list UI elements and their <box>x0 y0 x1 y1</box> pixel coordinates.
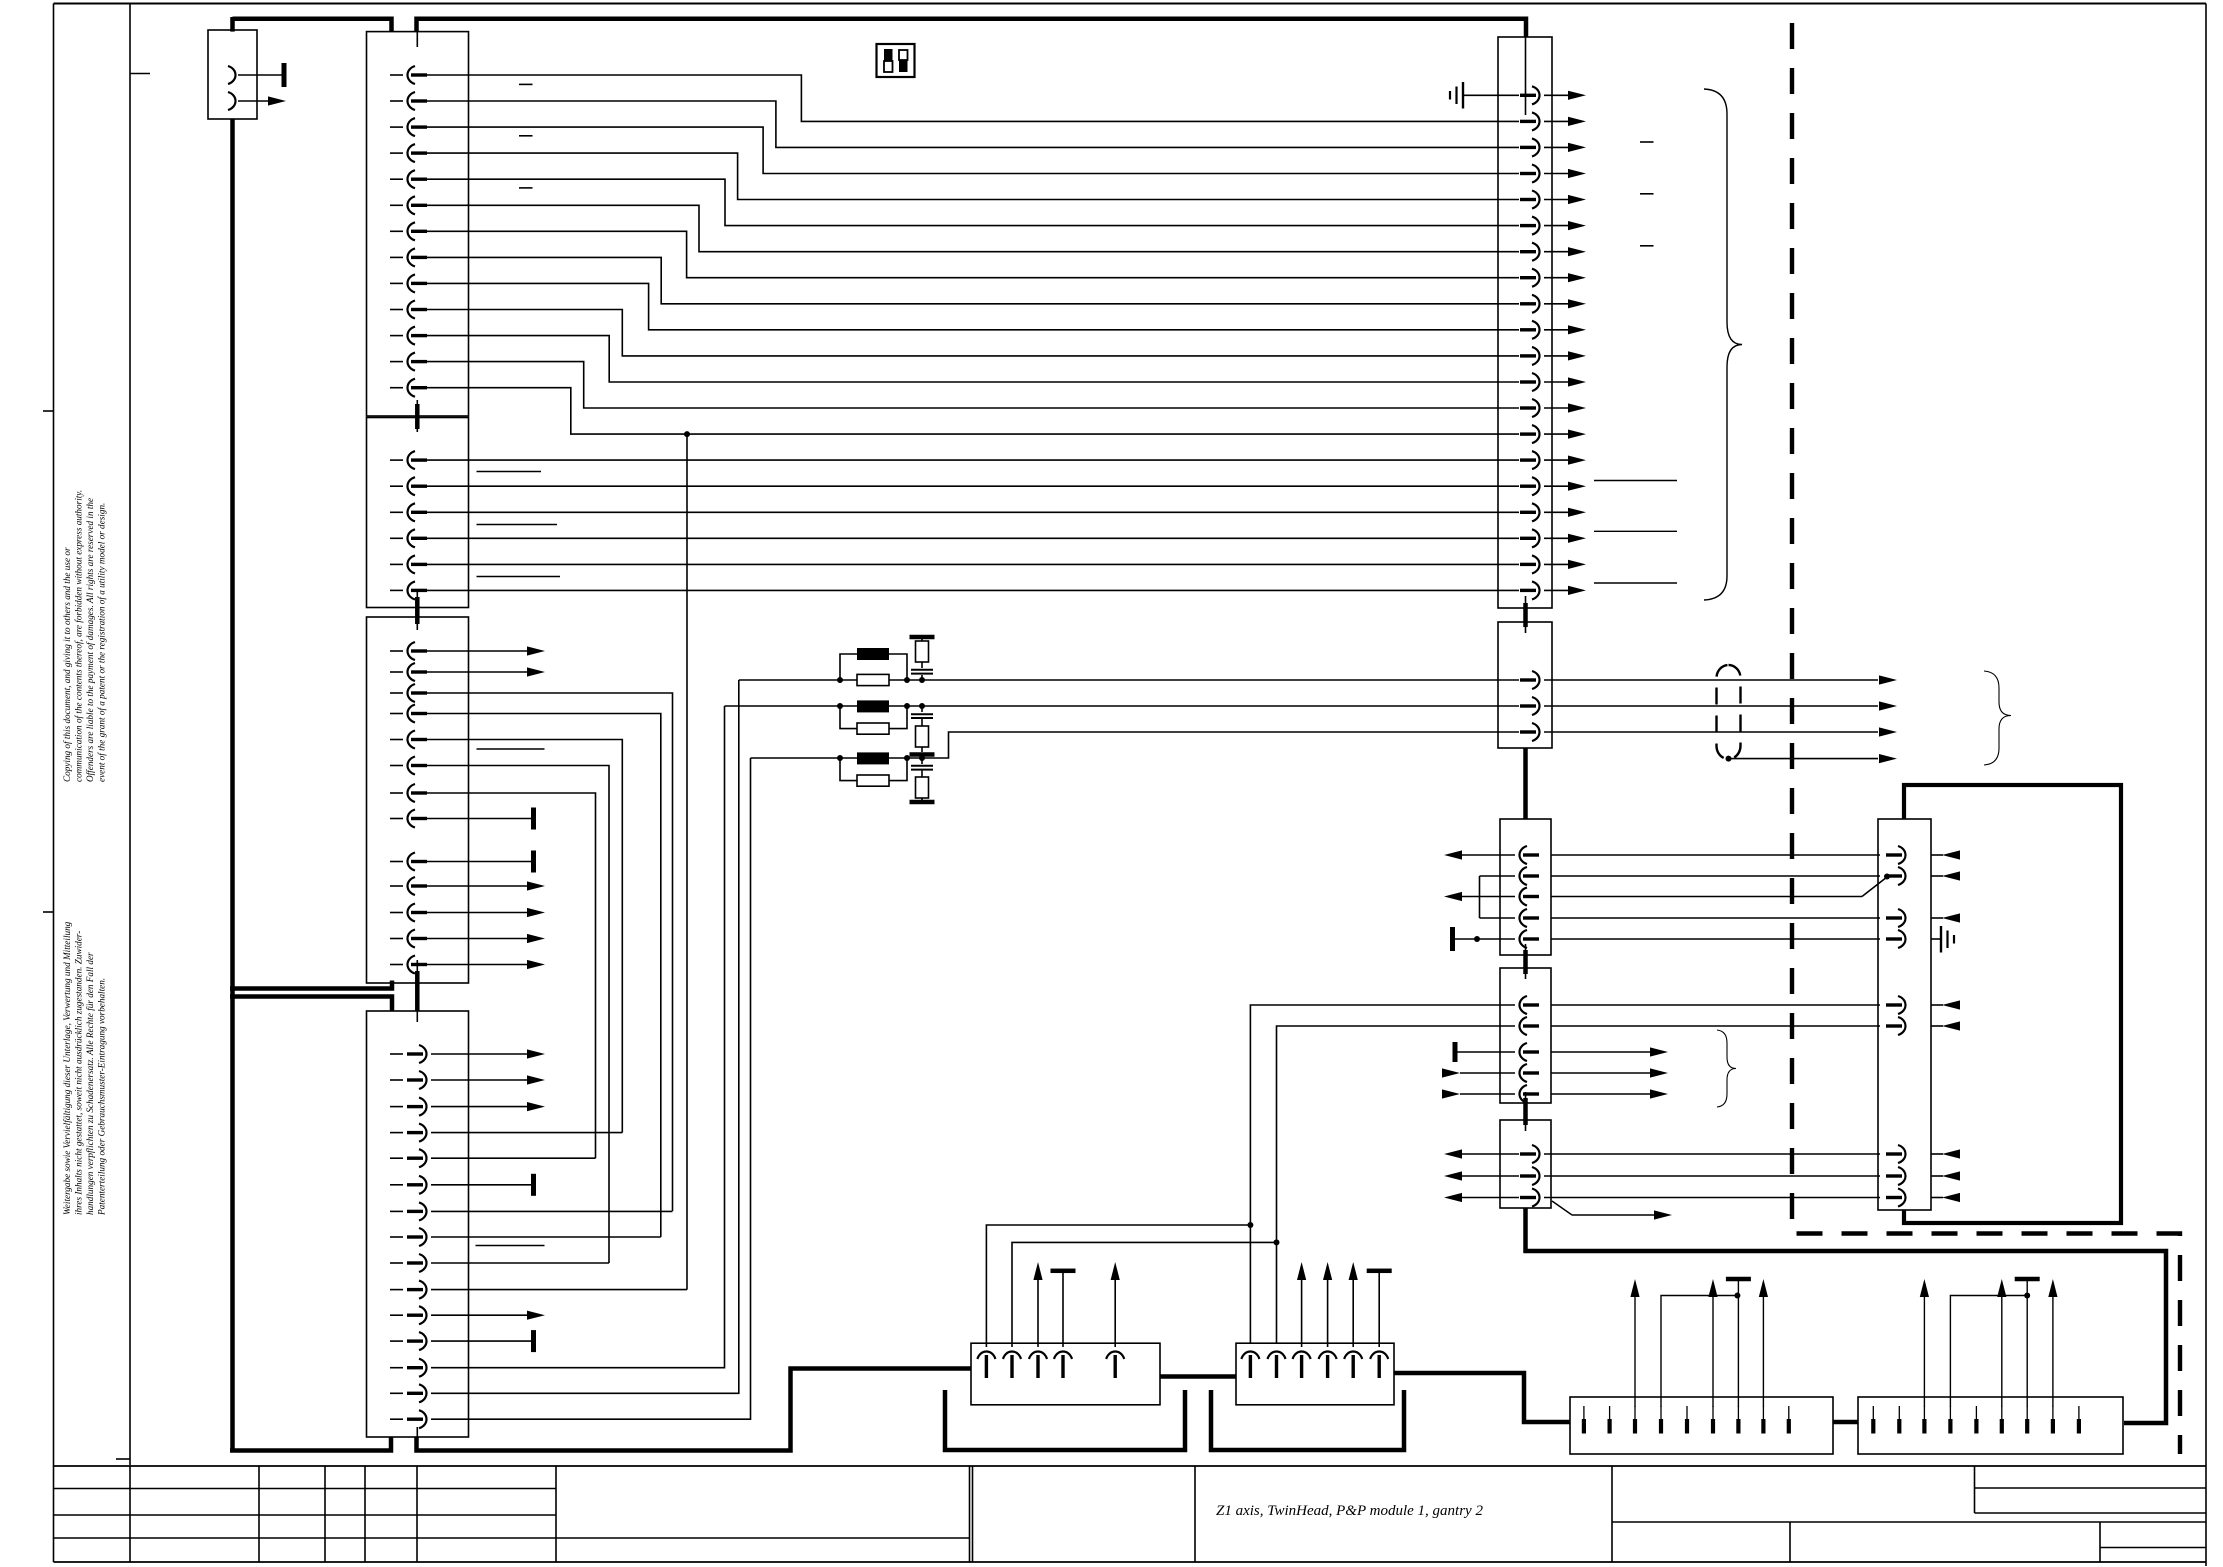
thick link X11 to X12 <box>1523 748 1528 819</box>
connector X10 pin 12 <box>1532 373 1540 391</box>
connector X2 pin 5 <box>390 563 403 565</box>
resistor pair loop row706 <box>840 706 857 729</box>
connector X13 pin 2 <box>1520 1017 1528 1035</box>
XA pin4 terminal up <box>1062 1273 1064 1347</box>
thick bottom bus y1450 left <box>230 1437 391 1451</box>
X15 arrow row1026 <box>1942 1021 1960 1030</box>
connector XC pin 5 <box>1685 1419 1689 1434</box>
connector X1 pin 1 <box>390 74 403 76</box>
X10 pin 8 output wire+arrow <box>1544 277 1568 279</box>
thick bottom bus y1450 mid <box>417 1369 972 1451</box>
label dash c3 <box>1640 245 1654 247</box>
connector XA pin 1 <box>977 1352 995 1360</box>
X11 pin 1 arrow <box>1879 675 1897 684</box>
X12 pin5 terminal <box>1450 927 1455 951</box>
connector X10 pin 7 <box>1532 243 1540 261</box>
connector X12 pin 1 <box>1520 846 1528 864</box>
connector X12 box <box>1500 819 1551 955</box>
X10 pin 20 output wire+arrow <box>1544 589 1568 591</box>
terminal bar X4 pin12 <box>531 1330 536 1352</box>
junction dots row 758 <box>837 755 843 761</box>
XB pin3 arrow up <box>1301 1280 1303 1347</box>
X10 pin 5 output wire+arrow <box>1544 199 1568 201</box>
DIP switch S1 element 1 <box>884 49 893 61</box>
connector X4 pin 13 <box>390 1367 403 1369</box>
resistor R1 <box>857 674 889 685</box>
X0 pin1 wire to terminal <box>238 74 282 76</box>
connector X2 box <box>367 418 469 608</box>
XB pin4 arrow up <box>1327 1280 1329 1347</box>
label underline b5 <box>476 1245 545 1247</box>
connector X10 pin 11 <box>1532 347 1540 365</box>
title block grid <box>54 1465 2207 1467</box>
X4 pin2 wire+arrow <box>431 1079 527 1081</box>
X11 pin 1 wire out <box>1544 679 1878 681</box>
X11 pin 2 wire out <box>1544 705 1878 707</box>
connector X10 pin 15 <box>1532 451 1540 469</box>
X10 pin 18 output wire+arrow <box>1544 537 1568 539</box>
label dash a2 <box>519 135 533 137</box>
wire X12 pin2 to X15 <box>1551 875 1880 877</box>
connector X11 pin 1 <box>1532 671 1540 689</box>
wire X4 pin5 up <box>431 1157 596 1159</box>
brace group cable <box>1984 671 2011 765</box>
wire X1 pin 1 to X10 <box>427 75 1519 121</box>
connector X12 pin 5 <box>1520 930 1528 948</box>
connector X4 pin 10 <box>390 1289 403 1291</box>
connector X10 pin 6 <box>1532 217 1540 235</box>
label dash a3 <box>519 187 533 189</box>
connector XB pin 2 <box>1268 1352 1286 1360</box>
connector X3 pin 11 <box>390 912 403 914</box>
connector X1 pin 5 <box>390 178 403 180</box>
label dash c1 <box>1640 141 1654 143</box>
connector XA pin 5 <box>1106 1352 1124 1360</box>
resistor pair loop row680 <box>840 654 857 680</box>
connector XD pin 6 <box>2000 1419 2004 1434</box>
connector XB pin 4 <box>1319 1352 1337 1360</box>
X14 pin 2 left arrow <box>1444 1171 1462 1180</box>
X13 pin4 in-arrow <box>1442 1068 1460 1077</box>
X3 pin12 wire+arrow <box>427 938 527 940</box>
wire X4 pin15 up <box>431 758 751 1419</box>
connector X13 box <box>1500 968 1551 1103</box>
connector XC pin 3 <box>1633 1419 1637 1434</box>
thick top bus segment B1 <box>233 19 392 32</box>
link X1-X2 <box>416 400 418 432</box>
X3 pin8 wire to terminal <box>427 818 531 820</box>
cable shield capsule <box>1717 665 1741 759</box>
connector XD box <box>1858 1397 2123 1454</box>
label dash c2 <box>1640 193 1654 195</box>
connector X3 pin 7 <box>390 792 403 794</box>
dashed boundary line <box>1792 23 2180 1454</box>
connector X3 pin 1 <box>390 650 403 652</box>
connector X14 pin 3 <box>1532 1189 1540 1207</box>
connector X3 pin 12 <box>390 938 403 940</box>
X13 pin5 in-arrow <box>1442 1089 1460 1098</box>
wire X4 pin8 <box>431 1236 661 1238</box>
connector XB box <box>1236 1343 1394 1405</box>
XC pin3 arrow up <box>1634 1297 1636 1407</box>
link X10-X11 <box>1525 596 1527 633</box>
wire X14 pin 2 to X15 <box>1544 1175 1880 1177</box>
thick earth bus vertical x232 upper <box>230 17 235 32</box>
junction dots row 680 <box>837 677 843 683</box>
X13 pin3 terminal <box>1453 1042 1458 1062</box>
connector XB pin 6 <box>1370 1352 1388 1360</box>
connector X1 pin 8 <box>390 256 403 258</box>
wire X1 pin 7 to X10 <box>427 231 1519 277</box>
connector XC pin 8 <box>1761 1419 1765 1434</box>
connector XD pin 7 <box>2025 1419 2029 1434</box>
connector X4 box <box>367 1011 469 1437</box>
connector X3 box <box>367 617 469 983</box>
XA pin5 arrow up <box>1114 1280 1116 1347</box>
connector X10 pin 8 <box>1532 269 1540 287</box>
connector X10 pin 9 <box>1532 295 1540 313</box>
wire X4 pin4 up <box>431 1132 622 1134</box>
wire X3 pin7 down <box>427 793 596 1158</box>
wire X1 pin 11 to X10 <box>427 336 1519 382</box>
connector X4 pin 12 <box>390 1340 403 1342</box>
wire vertical x687 down to X4 <box>686 434 688 1290</box>
label underline b4 <box>477 748 545 750</box>
connector X11 pin 3 <box>1532 723 1540 741</box>
connector X0 pin 1 <box>228 66 236 84</box>
wire X3 pin3 down <box>427 693 673 1211</box>
connector X10 pin 4 <box>1532 165 1540 183</box>
X15 arrow row1197.5 <box>1942 1193 1960 1202</box>
X10 pin 11 output wire+arrow <box>1544 355 1568 357</box>
connector X12 pin 3 <box>1520 888 1528 906</box>
X3 pin10 wire+arrow <box>427 885 527 887</box>
connector XA pin 4 <box>1054 1352 1072 1360</box>
connector X15 pin row1005 <box>1898 996 1906 1014</box>
connector X4 pin 3 <box>390 1106 403 1108</box>
diagonal tie row896-row876 <box>1862 877 1887 897</box>
connector XC pin 6 <box>1711 1419 1715 1434</box>
wire X2 pin 1 to X10 <box>427 459 1519 461</box>
connector XB pin 5 <box>1344 1352 1362 1360</box>
X14 shield diagonal <box>1552 1201 1572 1215</box>
X10 pin 3 output wire+arrow <box>1544 146 1568 148</box>
sheet frame border <box>54 3 2207 5</box>
connector X1 pin 9 <box>390 282 403 284</box>
X12 pin3 left arrow <box>1444 892 1462 901</box>
module M1 box (thick) <box>1904 785 2121 1223</box>
connector X4 pin 2 <box>390 1079 403 1081</box>
terminal bar at X0 pin1 <box>282 63 287 87</box>
resistor R2 <box>857 723 889 734</box>
junction dot x1276 <box>1274 1239 1280 1245</box>
wire X4 pin14 up <box>431 680 739 1393</box>
terminal bar X4 pin6 <box>531 1174 536 1196</box>
X3 pin13 wire+arrow <box>427 964 527 966</box>
cap chain row758: resistor R6 <box>916 777 929 798</box>
connector X1 pin 2 <box>390 100 403 102</box>
X10 pin 2 output wire+arrow <box>1544 120 1568 122</box>
X15 arrow row918 <box>1942 913 1960 922</box>
svg-text:Copying of this document, and: Copying of this document, and giving it … <box>62 547 72 782</box>
connector strip X15 box <box>1878 819 1931 1210</box>
X15 arrow row876 <box>1942 871 1960 880</box>
DIP switch S1 element 2 <box>899 50 908 60</box>
connector X10 pin 16 <box>1532 477 1540 495</box>
label underline c5 <box>1594 530 1677 532</box>
X15 arrow row1154 <box>1942 1149 1960 1158</box>
frame zone tick marks <box>43 410 54 412</box>
XC pin6 arrow up <box>1712 1297 1714 1407</box>
wire X2 pin 5 to X10 <box>427 563 1519 565</box>
connector X1 pin 13 <box>390 387 403 389</box>
connector X14 pin 1 <box>1532 1145 1540 1163</box>
connector XC pin 9 <box>1787 1419 1791 1434</box>
wire X1 pin 10 to X10 <box>427 310 1519 356</box>
label underline b3 <box>477 576 561 578</box>
XD pin3 arrow up <box>1923 1297 1925 1407</box>
label underline b2 <box>477 524 558 526</box>
connector XD pin 5 <box>1974 1419 1978 1434</box>
connector X4 pin 5 <box>390 1157 403 1159</box>
X3 pin11 wire+arrow <box>427 912 527 914</box>
connector X13 pin 4 <box>1520 1064 1528 1082</box>
wire XA pin2 up <box>1012 1242 1277 1347</box>
connector X10 pin 17 <box>1532 503 1540 521</box>
wire net row 680 <box>739 679 1519 681</box>
wire X13 pin2 to X15 <box>1551 1025 1880 1027</box>
ground symbol at X15 row939 <box>1931 938 1941 940</box>
connector X12 pin 4 <box>1520 909 1528 927</box>
connector XA pin 2 <box>1003 1352 1021 1360</box>
thick top bus segment B2 <box>417 19 1527 37</box>
terminal bar X3 pin9 <box>531 851 536 873</box>
cap chain row706: capacitor C2 <box>921 706 923 712</box>
connector X3 pin 6 <box>390 765 403 767</box>
connector XB pin 1 <box>1241 1352 1259 1360</box>
thick wire XB to right <box>1394 1373 1570 1422</box>
connector XC pin 7 <box>1736 1419 1740 1434</box>
connector X1 pin 4 <box>390 152 403 154</box>
connector X15 pin row918 <box>1898 909 1906 927</box>
X4 pin6 wire to terminal <box>431 1184 531 1186</box>
connector X10 pin 10 <box>1532 321 1540 339</box>
connector X10 pin 19 <box>1532 555 1540 573</box>
connector X10 pin 3 <box>1532 138 1540 156</box>
link X13-X14 <box>1525 1092 1527 1131</box>
X11 pin 3 arrow <box>1879 727 1897 736</box>
wire X2 pin 4 to X10 <box>427 537 1519 539</box>
label underline c4 <box>1594 480 1677 482</box>
connector XD pin 2 <box>1897 1419 1901 1434</box>
X3 pin9 wire to terminal <box>427 861 531 863</box>
XD pin8 arrow up <box>2052 1297 2054 1407</box>
connector X2 pin 2 <box>390 485 403 487</box>
connector X3 pin 8 <box>390 818 403 820</box>
wire X12 pin1 to X15 <box>1551 854 1880 856</box>
connector X14 box <box>1500 1120 1551 1208</box>
label underline b1 <box>477 471 542 473</box>
cap chain row680: capacitor C1 <box>921 662 923 668</box>
X10 pin 19 output wire+arrow <box>1544 563 1568 565</box>
X11 pin 2 arrow <box>1879 701 1897 710</box>
connector X15 pin row939 <box>1898 930 1906 948</box>
XA pin3 arrow up <box>1037 1280 1039 1347</box>
X10 pin 15 output wire+arrow <box>1544 459 1568 461</box>
wire X14 pin 1 to X15 <box>1544 1153 1880 1155</box>
thick earth bus vertical x232 main <box>230 119 235 1451</box>
cap chain row758: terminal <box>921 798 923 800</box>
wire X2 pin 6 to X10 <box>427 589 1519 591</box>
X10 pin 7 output wire+arrow <box>1544 251 1568 253</box>
connector XC pin 2 <box>1608 1419 1612 1434</box>
label underline c6 <box>1594 582 1677 584</box>
connector X4 pin 15 <box>390 1418 403 1420</box>
X10 pin 9 output wire+arrow <box>1544 303 1568 305</box>
ground symbol at X10 pin1 <box>1463 94 1519 96</box>
DIP switch S1 outline <box>877 44 915 77</box>
wire XA pin1 up <box>986 1225 1250 1347</box>
connector X4 pin 1 <box>390 1053 403 1055</box>
XB pin5 arrow up <box>1352 1280 1354 1347</box>
connector X10 pin 20 <box>1532 581 1540 599</box>
connector X3 pin 9 <box>390 861 403 863</box>
connector X13 pin 3 <box>1520 1043 1528 1061</box>
inductor L2 (filled) <box>857 700 889 712</box>
connector X3 pin 2 <box>390 671 403 673</box>
X3 pin2 wire+arrow <box>427 671 527 673</box>
wire X1 pin 6 to X10 <box>427 205 1519 251</box>
shield junction dot <box>1726 756 1732 762</box>
connector X0 pin 2 <box>228 92 236 110</box>
connector X15 pin row876 <box>1898 867 1906 885</box>
label dash a1 <box>519 83 533 85</box>
cap chain row680: terminal <box>910 635 935 640</box>
connector X10 pin 13 <box>1532 399 1540 417</box>
connector X11 box <box>1498 622 1552 748</box>
connector X3 pin 3 <box>390 692 403 694</box>
connector X1 pin 7 <box>390 230 403 232</box>
terminal bar X3 pin8 <box>531 808 536 830</box>
thick wire XC-XD <box>1833 1420 1858 1425</box>
link X2-X3 <box>416 592 418 630</box>
connector X1 pin 6 <box>390 204 403 206</box>
X12 pin4 left wire <box>1480 917 1516 919</box>
connector X15 pin row1154 <box>1898 1145 1906 1163</box>
wire X1 pin 3 to X10 <box>427 127 1519 173</box>
wire X4 pin10 <box>431 1289 687 1291</box>
connector XD pin 9 <box>2077 1419 2081 1434</box>
XC pin8 arrow up <box>1762 1297 1764 1407</box>
connector XC pin 1 <box>1582 1419 1586 1434</box>
X0 pin2 wire <box>238 100 268 102</box>
cap chain row706: resistor R5 <box>916 726 929 747</box>
connector X15 pin row1026 <box>1898 1017 1906 1035</box>
junction dot row876 <box>1884 874 1890 880</box>
connector X4 pin 7 <box>390 1210 403 1212</box>
X10 pin 12 output wire+arrow <box>1544 381 1568 383</box>
connector XD pin 8 <box>2051 1419 2055 1434</box>
connector XA box <box>971 1343 1160 1405</box>
wire X13 pin2 left-down <box>1277 1026 1516 1343</box>
resistor R3 <box>857 775 889 786</box>
XC pin4 wire up <box>1661 1296 1737 1408</box>
wire X14 pin 3 to X15 <box>1544 1197 1880 1199</box>
link X1 top <box>416 32 418 47</box>
XC pin7 terminal up <box>1737 1281 1739 1407</box>
X10 pin 17 output wire+arrow <box>1544 511 1568 513</box>
link X4 bottom <box>416 1427 418 1437</box>
connector X2 pin 3 <box>390 511 403 513</box>
X10 pin 10 output wire+arrow <box>1544 329 1568 331</box>
svg-text:Patenterteilung oder Gebrauchs: Patenterteilung oder Gebrauchsmuster-Ein… <box>97 978 107 1216</box>
connector X3 pin 5 <box>390 739 403 741</box>
connector X1 pin 12 <box>390 361 403 363</box>
wire X13 pin1 to X15 <box>1551 1004 1880 1006</box>
X10 pin 14 output wire+arrow <box>1544 433 1568 435</box>
connector X3 pin 4 <box>390 713 403 715</box>
XD pin6 arrow up <box>2001 1297 2003 1407</box>
connector XC box <box>1570 1397 1833 1454</box>
X3 pin1 wire+arrow <box>427 650 527 652</box>
connector XD pin 1 <box>1871 1419 1875 1434</box>
connector X10 pin 1 <box>1532 86 1540 104</box>
X15 arrow row855 <box>1942 850 1960 859</box>
connector X4 pin 9 <box>390 1262 403 1264</box>
svg-text:Z1 axis, TwinHead, P&P module: Z1 axis, TwinHead, P&P module 1, gantry … <box>1216 1503 1483 1519</box>
connector X1 pin 11 <box>390 335 403 337</box>
connector X1 box <box>367 32 469 416</box>
connector X2 pin 6 <box>390 589 403 591</box>
connector XB pin 3 <box>1293 1352 1311 1360</box>
wire X3 pin5 down <box>427 740 622 1133</box>
wire X2 pin 3 to X10 <box>427 511 1519 513</box>
thick wire XA-XB <box>1160 1374 1236 1379</box>
connector X10 pin 14 <box>1532 425 1540 443</box>
link lead X10 top <box>1525 37 1527 115</box>
X10 pin 4 output wire+arrow <box>1544 173 1568 175</box>
connector X13 pin 5 <box>1520 1085 1528 1103</box>
connector X0 box <box>208 30 257 119</box>
X15 arrow row1176 <box>1942 1171 1960 1180</box>
X12 pins2-4 tie vertical <box>1479 876 1481 918</box>
thick U bracket module B <box>1211 1390 1404 1450</box>
junction dots row 706 <box>837 703 843 709</box>
junction dot XD <box>2024 1293 2030 1299</box>
X13 pin3 wire out+arrow <box>1551 1051 1650 1053</box>
cap chain row758: capacitor C3 <box>921 758 923 764</box>
connector X4 pin 4 <box>390 1132 403 1134</box>
X14 pin 1 left arrow <box>1444 1149 1462 1158</box>
connector XD pin 4 <box>1948 1419 1952 1434</box>
brace group X13 <box>1717 1030 1736 1107</box>
connector XA pin 3 <box>1029 1352 1047 1360</box>
X4 pin12 wire to terminal <box>431 1340 531 1342</box>
X13 pin5 wire out+arrow <box>1551 1093 1650 1095</box>
cap chain row706: terminal <box>921 747 923 752</box>
wire X1 pin 2 to X10 <box>427 101 1519 147</box>
wire X12 pin5 to X15 <box>1551 938 1880 940</box>
wire X12 pin3 to diagonal <box>1551 896 1862 898</box>
wire X1 pin 12 to X10 <box>427 362 1519 408</box>
wire X1 pin 13 to X10 <box>427 388 1519 434</box>
junction node on wire row434 <box>684 431 690 437</box>
connector X1 pin 3 <box>390 126 403 128</box>
wire X4 pin7 <box>431 1210 673 1212</box>
X14 shield wire+arrow <box>1572 1214 1654 1216</box>
X13 pin4 wire out+arrow <box>1551 1072 1650 1074</box>
svg-text:ihres Inhalts nicht gestattet,: ihres Inhalts nicht gestattet, soweit ni… <box>74 931 84 1215</box>
